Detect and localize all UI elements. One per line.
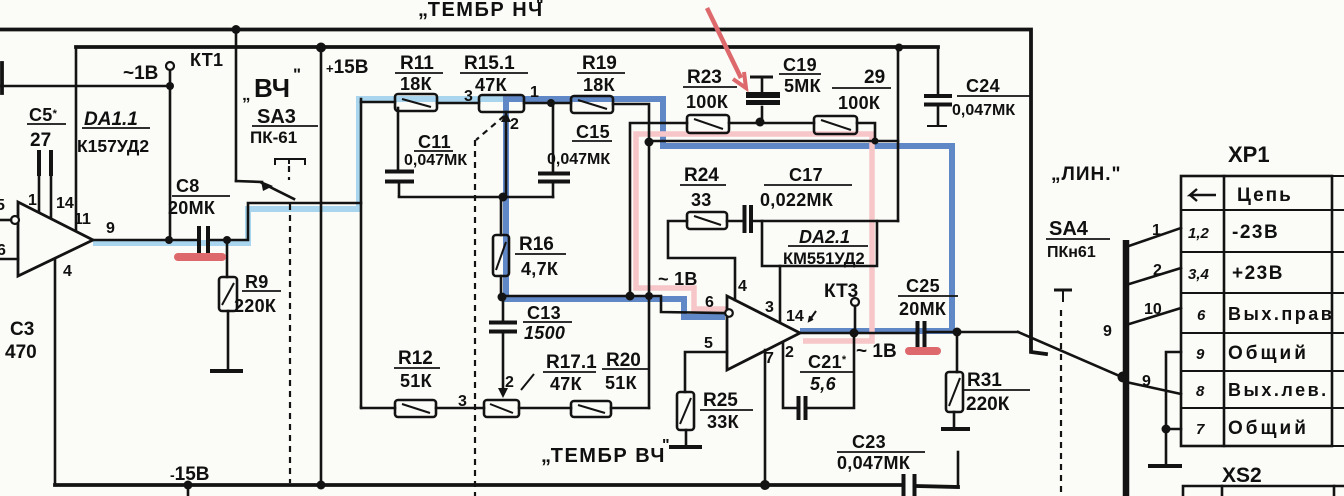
capacitor C8 (series 20МК) [199,226,208,253]
wire: KT1 test branch horizontal [0,70,170,240]
label R11 18К [395,53,443,94]
svg-text:4: 4 [63,263,72,280]
svg-text:33К: 33К [707,412,740,432]
svg-text:2: 2 [1153,262,1162,279]
label C23 0,047МК [837,432,925,473]
wire: XP1 connector bus [1118,240,1129,496]
svg-text:+15В: +15В [326,57,368,78]
wire: XP1 common bracket to ground [1148,352,1182,466]
resistor R11 18К [395,94,437,111]
svg-text:1: 1 [28,192,37,209]
svg-text:КТ1: КТ1 [190,50,223,70]
svg-text:1,2: 1,2 [1188,225,1210,242]
svg-text:9: 9 [1196,346,1205,363]
resistor R12 51К [361,400,436,417]
label box DA2.1 КМ551УД2 [762,221,877,268]
svg-text:47К: 47К [475,75,508,95]
svg-text:": " [536,0,544,14]
svg-text:220К: 220К [966,394,1010,415]
label R20 51К [602,350,649,393]
wire: C17 right to riser [752,220,898,223]
capacitor C17 0,022МК [727,205,751,233]
wire: DA1.1 pin 4 drop [54,259,57,485]
svg-text:R9: R9 [245,272,269,292]
svg-text:С24: С24 [966,76,1000,96]
wire: bus to XP1 pin 10 [1126,308,1181,325]
resistor R23 100К [687,115,729,133]
svg-text:2: 2 [510,116,519,133]
label C5* 27 [27,105,66,151]
svg-text:+23В: +23В [1232,263,1284,284]
connector table XS2 top edge [1183,486,1344,496]
svg-text:R15.1: R15.1 [464,53,515,74]
svg-text:С17: С17 [789,165,823,185]
wire: second top rail [76,45,938,49]
svg-text:ВЧ: ВЧ [254,73,290,103]
capacitor C11 0,047МК [385,108,414,196]
svg-text:9: 9 [1142,373,1151,390]
wire: riser x899 from second rail to C17 [897,48,900,221]
capacitor C5 between pins 1 and 14 [39,150,51,218]
label R24 33 [680,165,726,210]
label R25 33К [700,390,753,432]
resistor R29 100К [814,116,857,134]
svg-text:SА3: SА3 [257,106,296,128]
label -15В [170,464,210,485]
svg-text:„: „ [242,85,251,104]
svg-text:100К: 100К [686,92,729,112]
resistor R20 51К [571,401,649,417]
svg-text:Вых.лев.: Вых.лев. [1228,380,1329,400]
svg-text:R23: R23 [687,67,722,88]
svg-text:14: 14 [786,308,804,325]
svg-text:DA1.1: DA1.1 [84,109,138,130]
label R19 18К [577,53,625,95]
wire: bus to XP1 pin 1 [1126,228,1181,247]
svg-text:С21*: С21* [808,352,847,372]
resistor R25 33К [669,392,702,447]
svg-text:R24: R24 [684,165,719,186]
svg-text:DA2.1: DA2.1 [799,227,850,247]
red underline under C8 [178,253,222,261]
svg-text:С3: С3 [10,319,34,340]
label KT3 [824,281,858,302]
wire: DA2.1 pin 3 [779,266,782,322]
wire: R11 to R15.1 [437,102,479,105]
svg-text:9: 9 [106,220,115,237]
label C11 0,047МК [404,132,467,169]
svg-text:470: 470 [5,342,37,363]
svg-text:220К: 220К [234,296,277,316]
table texts XP1 [1188,185,1334,439]
label C19 5МК [779,55,822,96]
resistor R31 220К [941,332,970,429]
svg-text:С13: С13 [527,303,561,323]
label C8 20МК [168,176,230,218]
svg-text:47К: 47К [550,374,583,394]
svg-text:0,047МК: 0,047МК [547,151,610,168]
svg-text:2: 2 [785,344,794,361]
wire: feedback run y141 [645,138,899,147]
svg-text:С11: С11 [418,132,451,152]
svg-text:5: 5 [0,197,5,214]
svg-text:0,047МК: 0,047МК [404,152,467,169]
svg-text:0,047МК: 0,047МК [952,102,1015,119]
pin labels R15.1 [464,84,539,133]
label R15.1 47К [460,53,528,95]
svg-text:7: 7 [765,350,774,367]
label C3 470 [5,319,37,363]
svg-text:4,7К: 4,7К [521,259,559,279]
wire: middle node row to DA2.1 input [498,292,725,314]
potentiometer R17.1 47К [436,400,571,417]
label XP1 [1228,142,1270,167]
svg-text:29: 29 [864,67,885,88]
svg-text:R11: R11 [400,53,434,74]
highlight: dark blue marker trace (loop through DA2.1 stage) [506,99,952,331]
op-amp DA1.1 triangle [0,202,93,276]
svg-text:ПКн61: ПКн61 [1047,244,1096,261]
label R9 220К [234,272,281,316]
wire: R24 left to DA2.1 pin 4 [668,221,735,300]
svg-text:R16: R16 [519,234,554,255]
svg-text:R25: R25 [703,390,738,411]
wire: gang dashed link R15.1 to R17.1 [475,116,504,496]
svg-text:51К: 51К [605,373,638,393]
svg-text:С25: С25 [906,276,940,296]
label +15В [326,57,368,78]
svg-text:6: 6 [705,294,714,311]
wire: DA2.1 pin 7 to bottom rail [764,350,767,484]
resistor R19 18К [571,96,613,113]
svg-text:18К: 18К [583,75,616,95]
svg-text:5МК: 5МК [784,76,822,96]
label ТЕМБР ВЧ (title) [541,437,670,467]
wire: SA3 gang dashed line to lower section [289,204,291,483]
node: output wire junctions [165,236,231,244]
label SA4 ПКн61 [1046,218,1110,261]
wire: +15В supply drop to bottom rail [320,47,323,484]
resistor R9 220К [210,240,243,371]
label XS2 [1222,464,1262,487]
wire: R11 row input [361,101,395,104]
svg-text:Цепь: Цепь [1237,185,1293,206]
highlight: pink marker trace (feedback path to pin 6) [636,134,872,341]
label R12 51К [394,348,440,391]
svg-text:100К: 100К [838,93,881,113]
capacitor C19 5МК (electrolytic) [746,77,780,122]
label C13 1500 [523,303,572,343]
svg-text:R12: R12 [398,348,433,369]
svg-text:„ЛИН.": „ЛИН." [1051,164,1122,185]
svg-text:КМ551УД2: КМ551УД2 [783,250,865,268]
label C21* 5,6 [800,352,855,394]
capacitor C25 20МК (series) [918,321,1019,347]
test point KT3 [851,298,859,333]
wire: R23 to R29 with C19 node [729,118,814,127]
svg-text:ПК-61: ПК-61 [250,128,297,147]
svg-text:КТ3: КТ3 [824,281,858,302]
svg-text:51К: 51К [400,371,433,391]
capacitor C23 0,047МК (on rail) [904,474,915,496]
svg-text:-23В: -23В [1232,222,1279,243]
red annotation arrow pointing at C19 [707,8,746,88]
svg-text:R19: R19 [582,53,617,74]
svg-text:8: 8 [1196,383,1205,400]
wire: bottom of C11/C15 row [399,193,553,202]
svg-text:ХР1: ХР1 [1228,142,1270,167]
svg-text:2: 2 [505,374,514,391]
wire: R19 right to vertical bus x649 [613,104,649,408]
label ТЕМБР НЧ (title) [418,0,544,21]
label R31 220К [963,370,1030,415]
svg-text:14: 14 [56,195,74,212]
labels wire numbers [1103,222,1162,390]
connector table XP1 [1181,176,1344,446]
svg-text:С8: С8 [176,176,200,196]
resistor R16 4,7К [493,198,509,297]
svg-text:~ 1В: ~ 1В [856,341,897,362]
label C25 20МК [898,276,958,319]
wire: DA1.1 output run to tone network [93,99,361,407]
svg-text:7: 7 [1196,421,1205,438]
label ЛИН. [1051,164,1122,185]
svg-text:3: 3 [464,88,473,105]
svg-text:0,022МК: 0,022МК [760,190,834,210]
svg-text:10: 10 [1144,301,1162,318]
svg-text:Общий: Общий [1228,343,1309,364]
svg-text:1500: 1500 [524,323,565,343]
svg-text:20МК: 20МК [899,299,947,319]
svg-text:R20: R20 [606,350,641,371]
label KT1 [190,50,223,70]
pin labels DA1.1 [0,192,115,280]
svg-text:SA4: SA4 [1049,218,1089,240]
label ~1В (at pin 4 area) [658,269,698,289]
label C17 0,022МК [760,165,852,210]
label 29 100К [832,67,891,113]
svg-text:6: 6 [1197,307,1206,324]
op-amp DA2.1 triangle [725,296,800,370]
svg-text:1: 1 [1152,222,1161,239]
wire: DA2.1 pin 5 to R25 [685,352,727,392]
red underline under C25 [909,347,937,355]
node: junction dots on rails [232,25,904,53]
label R16 4,7К [515,234,566,279]
capacitor C24 0,047МК [924,48,952,126]
svg-text:18К: 18К [400,74,433,94]
wire: input stub at left edge [0,63,4,93]
highlight: light blue marker trace (DA1.1 output to tone network input) [93,99,505,243]
svg-text:": " [662,437,670,454]
switch SA3 (ВЧ) [236,30,305,200]
svg-text:Вых.прав: Вых.прав [1228,304,1334,324]
capacitor C21 5,6 [799,334,855,420]
wire: R15.1 to R19 with node [524,99,571,107]
svg-text:33: 33 [691,190,712,210]
svg-text:6: 6 [0,242,6,259]
svg-text:~ 1В: ~ 1В [658,269,698,289]
svg-text:XS2: XS2 [1222,464,1262,487]
switch SA4 (ЛИН) [1018,290,1122,496]
svg-text:К157УД2: К157УД2 [77,136,149,156]
potentiometer R15.1 47К [479,95,524,197]
label C15 0,047МК [547,122,612,168]
svg-text:„ТЕМБР НЧ: „ТЕМБР НЧ [418,0,544,21]
svg-text:11: 11 [74,211,91,228]
svg-text:С23: С23 [852,432,886,452]
svg-text:1: 1 [530,84,539,101]
resistor R24 33 [687,212,727,229]
svg-text:~1В: ~1В [123,63,158,84]
svg-text:27: 27 [30,130,51,151]
pin labels DA2.1 [704,278,816,367]
label R23 100К [683,67,737,112]
svg-text:R17.1: R17.1 [546,352,597,373]
wire: DA2.1 output [800,329,916,338]
svg-text:Общий: Общий [1228,418,1309,439]
svg-text:„ТЕМБР ВЧ: „ТЕМБР ВЧ [541,445,666,467]
svg-text:4: 4 [738,278,747,295]
wire: bus to XP1 pin 2 [1126,268,1181,285]
label ~1В (KT1) [123,63,158,84]
label DA1.1 К157УД2 [77,109,150,156]
svg-text:С19: С19 [783,55,817,75]
wire: DA1.1 pin 11 drop from second rail [75,47,78,230]
svg-text:-15В: -15В [170,464,210,485]
svg-text:0,047МК: 0,047МК [837,453,911,473]
svg-text:20МК: 20МК [168,198,216,218]
wire: R29 right down to feedback run [857,123,879,145]
wire: bus to XP1 pin 9 [1126,382,1181,394]
svg-text:5: 5 [704,335,713,352]
svg-text:": " [293,65,301,84]
label ~1В (output) [856,341,897,362]
wire: DA2.1 pin 2 to C21 [783,343,797,408]
svg-text:3,4: 3,4 [1188,266,1210,283]
svg-text:3: 3 [765,299,774,316]
capacitor C15 0,047МК [538,103,570,197]
label R17.1 47К and pins [458,352,597,410]
svg-text:R31: R31 [967,370,1002,391]
svg-text:5,6: 5,6 [810,374,837,394]
label "ВЧ" SA3 ПК-61 [242,65,318,147]
svg-text:9: 9 [1103,323,1112,340]
test point KT1 circle [166,62,174,90]
wire: R23 left drop to inverting node [630,123,687,296]
svg-text:3: 3 [458,393,467,410]
capacitor C13 1500 [489,297,517,398]
svg-text:С15: С15 [576,122,610,142]
wire: bottom -15В rail [55,452,958,496]
label C24 0,047МК [952,76,1030,119]
wire: top signal rail [0,30,1046,355]
